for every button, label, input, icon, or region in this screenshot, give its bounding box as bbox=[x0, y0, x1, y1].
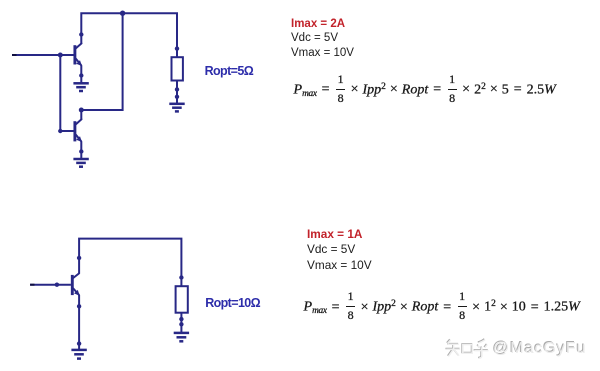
ground: Q1 emitter bbox=[73, 83, 88, 91]
transistor Q1 bbox=[75, 43, 82, 66]
node: Q2 emitter pin dot bbox=[79, 149, 83, 153]
wire: dark tip at top input end bbox=[12, 54, 17, 56]
wire: bottom rail with Q3 collector leg and R2 leg bbox=[79, 239, 181, 287]
node: Q3 base wire pin dot bbox=[55, 283, 59, 287]
node: Q3 ground pin dot bbox=[77, 341, 81, 345]
wire: bottom circuit input to Q3 base bbox=[30, 284, 71, 286]
resistor R1 bbox=[172, 57, 183, 80]
node: R1 top pin dot bbox=[175, 46, 179, 50]
resistor R2 bbox=[176, 286, 188, 313]
wire: resistor R2 bottom lead bbox=[180, 313, 182, 333]
node C: Q2 collector node dot bbox=[79, 108, 84, 113]
text block: bottom conditions bbox=[307, 227, 372, 273]
watermark: hu character bbox=[474, 339, 489, 358]
transistor Q3 bbox=[72, 274, 79, 296]
node B: top rail junction dot bbox=[120, 11, 125, 16]
node: Q1 collector pin dot bbox=[79, 32, 83, 36]
node A: input junction dot bbox=[58, 53, 63, 58]
node: Q2 base corner dot bbox=[58, 129, 62, 133]
formula: top Pmax = 1/8 Ipp^2 Ropt bbox=[294, 73, 556, 104]
wire: top rail with Q1 collector leg and R1 leg bbox=[81, 13, 177, 57]
node: R1 bottom pin dot 1 bbox=[175, 87, 179, 91]
ground: below R1 bbox=[169, 104, 184, 112]
wire: junction B down to Q2 collector node bbox=[81, 13, 122, 119]
node: Q1 emitter pin dot bbox=[79, 73, 83, 77]
watermark: zhi character bbox=[446, 339, 473, 356]
formula: bottom Pmax = 1/8 Ipp^2 Ropt bbox=[304, 290, 580, 321]
wire: Q2 emitter vertical bbox=[80, 141, 82, 159]
watermark: @MacGyFu bbox=[493, 341, 587, 357]
transistor Q2 bbox=[75, 119, 82, 142]
wire: dark tip at bottom input end bbox=[30, 284, 34, 286]
label: Ropt=5 ohm bbox=[205, 65, 254, 78]
node: R2 bottom pin dot 1 bbox=[179, 317, 183, 321]
node: Q3 emitter pin dot bbox=[77, 304, 81, 308]
node: R1 bottom pin dot 2 bbox=[175, 95, 179, 99]
ground: Q3 emitter bbox=[71, 350, 86, 359]
node: Q3 collector pin dot bbox=[77, 256, 81, 260]
label: Ropt=10 ohm bbox=[205, 297, 260, 310]
ground: Q2 emitter bbox=[73, 159, 88, 167]
wire: junction down and over to Q2 base bbox=[60, 55, 73, 131]
wire: resistor R1 bottom lead bbox=[176, 81, 178, 104]
node: R2 bottom pin dot 2 bbox=[179, 322, 183, 326]
ground: below R2 bbox=[174, 333, 189, 341]
wire: Q3 emitter vertical bbox=[78, 295, 80, 350]
node: R2 top pin dot bbox=[179, 275, 183, 279]
wire: top circuit input to Q1 base bbox=[12, 54, 74, 56]
text block: top conditions bbox=[291, 17, 354, 61]
wire: Q1 emitter vertical bbox=[80, 65, 82, 83]
